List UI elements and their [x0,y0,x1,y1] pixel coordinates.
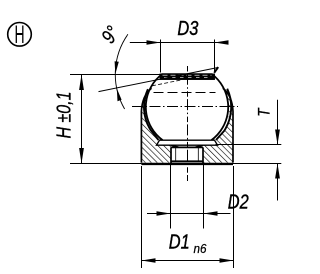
svg-text:H: H [14,22,24,49]
dimension 9 degrees (angle arc) [97,22,128,109]
dimension D2 (bottom) [147,165,249,229]
mounting hole D2 (white, blind) [171,147,203,163]
body outline [141,88,151,162]
svg-text:T: T [255,107,274,117]
ball (flattened sphere, white fill over hatch) [146,74,228,148]
body (hatched socket section) [141,88,233,162]
svg-text:n6: n6 [194,242,207,257]
hole mouth line [171,160,203,162]
body bottom face [141,163,233,165]
washer disc under ball [157,140,218,145]
vertical centerline [187,66,189,181]
dimension T (right) [216,100,282,201]
tilted pad top line (9 deg position) [99,68,219,92]
svg-text:D1: D1 [169,230,190,253]
horizontal centerline [132,106,238,108]
svg-text:H ±0,1: H ±0,1 [53,91,75,138]
hole thread lines [175,147,177,160]
hidden socket rim edge (dashed, behind ball) [154,92,216,94]
svg-text:D3: D3 [177,16,198,39]
dimension D1 n6 (bottom) [142,166,234,268]
socket lip arcs (front of ball) [144,89,158,140]
dimension D3 (top) [130,16,229,72]
pad D3 (solid dark cap on ball) [160,74,214,79]
dimension H +-0,1 (left) [53,75,161,164]
view label H (circled letter top-left) [8,22,32,49]
svg-text:D2: D2 [228,190,249,213]
tilted pad hidden bottom edge (dashed) [152,80,181,86]
